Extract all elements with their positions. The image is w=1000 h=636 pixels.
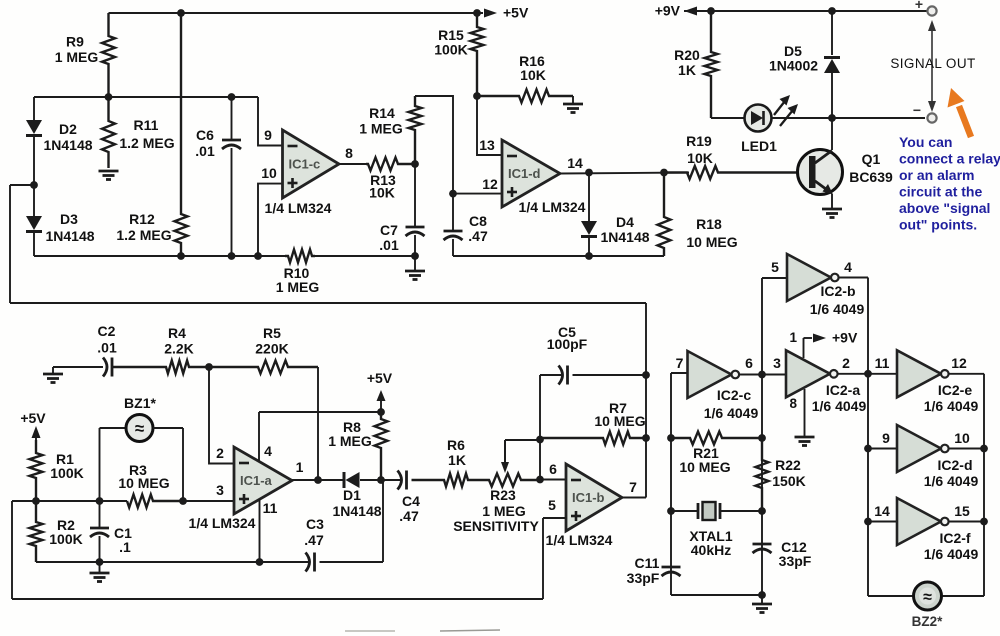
- label IC2-d: [924, 457, 979, 489]
- resistor R15: [471, 13, 484, 96]
- junction XTAL right: [758, 507, 766, 515]
- wire emitter: [831, 194, 833, 208]
- svg-text:+9V: +9V: [832, 330, 858, 346]
- svg-text:IC2-e: IC2-e: [938, 382, 972, 398]
- wire output pin7: [622, 303, 646, 498]
- inverter IC2-d: [897, 425, 949, 472]
- label pin 3 (IC2-a): [773, 355, 781, 371]
- wire IC1-d output: [560, 173, 689, 174]
- wire BZ2 right: [941, 595, 984, 597]
- wire pin6 IC1-b: [540, 479, 566, 481]
- label R14: [359, 105, 403, 137]
- junction top rail / R12: [177, 9, 185, 17]
- buzzer BZ2: [914, 582, 942, 610]
- resistor R20: [705, 11, 718, 118]
- svg-text:10 MEG: 10 MEG: [118, 475, 169, 491]
- label D3: [45, 211, 94, 244]
- wire R5 to output: [317, 367, 319, 480]
- label R9 value: [55, 34, 99, 66]
- wire collector: [831, 118, 833, 150]
- resistor R16: [477, 90, 573, 103]
- resistor R22: [756, 438, 769, 511]
- diode D1: [344, 472, 360, 488]
- LED1 light arrows: [774, 95, 798, 126]
- svg-text:R4: R4: [168, 325, 186, 341]
- label IC2-f: [924, 530, 979, 562]
- svg-text:.1: .1: [119, 539, 131, 555]
- svg-text:+5V: +5V: [367, 370, 393, 386]
- power +5V (R8): [367, 370, 393, 412]
- svg-text:11: 11: [263, 500, 278, 516]
- capacitor C5: [559, 366, 568, 385]
- junction R1/R2 bias: [32, 497, 40, 505]
- wire D1 to C4: [360, 479, 401, 481]
- svg-text:D1: D1: [343, 487, 361, 503]
- svg-text:1/6 4049: 1/6 4049: [924, 473, 979, 489]
- svg-text:R12: R12: [129, 211, 155, 227]
- svg-text:R11: R11: [134, 117, 159, 133]
- svg-text:1: 1: [789, 330, 797, 345]
- wire gnd to C2: [53, 366, 103, 368]
- svg-text:connect a relay: connect a relay: [899, 151, 1000, 167]
- label 1/4 LM324 (IC1-d): [519, 199, 586, 215]
- label C5: [547, 324, 588, 352]
- terminal signal out -: [913, 102, 937, 123]
- wire IC2-a output: [838, 373, 897, 375]
- wire R14 top to pin12 node: [415, 96, 453, 194]
- svg-text:R22: R22: [775, 457, 801, 473]
- svg-text:C6: C6: [196, 127, 214, 143]
- svg-text:10 MEG: 10 MEG: [679, 459, 730, 475]
- label Q1: [849, 151, 893, 185]
- svg-text:2.2K: 2.2K: [164, 341, 194, 357]
- junction R13/R14/C7: [411, 160, 419, 168]
- svg-text:IC2-f: IC2-f: [939, 530, 970, 546]
- diode D3: [26, 185, 42, 256]
- svg-text:1.2 MEG: 1.2 MEG: [116, 227, 171, 243]
- svg-text:1 MEG: 1 MEG: [359, 121, 403, 137]
- svg-text:C11: C11: [635, 555, 660, 571]
- svg-text:IC1-a: IC1-a: [240, 473, 273, 488]
- svg-text:8: 8: [789, 396, 797, 411]
- svg-text:100K: 100K: [49, 531, 82, 547]
- label R16: [519, 53, 546, 83]
- svg-text:C3: C3: [306, 516, 324, 532]
- svg-text:5: 5: [548, 497, 556, 513]
- wire R22/C12 branch: [761, 278, 763, 595]
- svg-text:1 MEG: 1 MEG: [482, 503, 526, 519]
- svg-text:1: 1: [296, 459, 304, 475]
- label D5: [769, 43, 818, 74]
- label pin 3: [216, 482, 224, 498]
- transistor Q1: [798, 150, 843, 195]
- label R4: [164, 325, 194, 357]
- svg-text:4: 4: [844, 259, 852, 275]
- label pin 11 (IC2-e): [875, 355, 890, 371]
- wire pin12 IC1-d: [453, 193, 502, 195]
- wire IC2-b input: [762, 277, 787, 279]
- label R23: [482, 487, 526, 519]
- label C6: [195, 127, 215, 159]
- inverter IC2-a: [786, 350, 838, 397]
- wire IC2-b output: [839, 278, 868, 374]
- svg-text:14: 14: [874, 503, 890, 519]
- resistor R19: [664, 166, 798, 179]
- svg-text:SIGNAL OUT: SIGNAL OUT: [890, 56, 975, 71]
- svg-text:D2: D2: [59, 121, 77, 137]
- svg-text:1/4 LM324: 1/4 LM324: [189, 515, 256, 531]
- svg-text:2: 2: [216, 445, 224, 461]
- label SIGNAL OUT: [890, 56, 975, 71]
- svg-text:IC2-d: IC2-d: [938, 457, 973, 473]
- svg-text:7: 7: [629, 479, 637, 495]
- svg-text:IC2-b: IC2-b: [821, 283, 856, 299]
- label R6: [447, 437, 466, 468]
- label C12: [779, 539, 812, 569]
- junction R21 right: [758, 434, 766, 442]
- label pin 5 (IC2-b): [771, 259, 779, 275]
- label IC2-c: [704, 387, 759, 421]
- power +9V (top): [655, 3, 697, 19]
- label IC2-e: [924, 382, 979, 414]
- diode D4: [581, 173, 597, 257]
- junction D5/collector/signal-: [828, 114, 836, 122]
- junction IC2-f input: [864, 518, 872, 526]
- wire pin2 IC1-a: [209, 367, 234, 464]
- svg-text:1/4 LM324: 1/4 LM324: [265, 200, 332, 216]
- svg-text:C2: C2: [98, 323, 116, 339]
- svg-text:8: 8: [345, 145, 353, 161]
- label pin 10: [261, 165, 277, 181]
- label 1/4 LM324 (IC1-a): [189, 515, 256, 531]
- svg-text:15: 15: [954, 503, 970, 519]
- label IC2-b: [810, 283, 865, 317]
- ground C2: [43, 367, 63, 383]
- svg-text:−: −: [913, 102, 921, 118]
- svg-text:1/4 LM324: 1/4 LM324: [519, 199, 586, 215]
- svg-text:IC1-c: IC1-c: [289, 157, 321, 172]
- capacitor C7: [406, 164, 425, 256]
- svg-text:out" points.: out" points.: [899, 217, 977, 233]
- label pin 14: [567, 155, 583, 171]
- resistor R7: [540, 432, 646, 445]
- junction buffer input node: [864, 370, 872, 378]
- svg-text:.01: .01: [195, 143, 215, 159]
- svg-text:R20: R20: [674, 47, 700, 63]
- svg-text:3: 3: [773, 355, 781, 371]
- wire pin13 IC1-d: [477, 96, 502, 155]
- svg-text:D3: D3: [60, 211, 78, 227]
- svg-text:1K: 1K: [678, 62, 696, 78]
- label pin 14 (IC2-f): [874, 503, 890, 519]
- label D1: [332, 487, 381, 519]
- junction top rail / R15: [473, 9, 481, 17]
- label pin 7 (IC1-b): [629, 479, 637, 495]
- wire +5V top rail: [109, 12, 484, 14]
- svg-text:4: 4: [264, 443, 272, 459]
- svg-text:100K: 100K: [434, 42, 467, 58]
- svg-text:+9V: +9V: [655, 3, 681, 19]
- junction pin6 node: [536, 476, 544, 484]
- capacitor C2: [103, 358, 112, 377]
- svg-text:circuit at the: circuit at the: [899, 184, 982, 200]
- svg-text:1N4148: 1N4148: [600, 229, 649, 245]
- svg-text:220K: 220K: [255, 341, 288, 357]
- svg-text:+5V: +5V: [503, 5, 529, 21]
- label pin 9 (IC2-d): [882, 430, 890, 446]
- wire C5 to node: [573, 374, 647, 376]
- svg-text:1N4148: 1N4148: [43, 137, 92, 153]
- junction C1 bottom: [96, 558, 104, 566]
- capacitor C3: [306, 553, 315, 572]
- buzzer BZ1: [100, 415, 184, 502]
- junction D4 bottom: [585, 252, 593, 260]
- wire buffer input bus: [867, 374, 869, 596]
- svg-text:12: 12: [482, 176, 498, 192]
- label R5: [255, 325, 288, 357]
- LED LED1: [745, 105, 772, 132]
- label 1/4 LM324 (IC1-c): [265, 200, 332, 216]
- label 1/4 LM324 (IC1-b): [546, 532, 613, 548]
- junction output/R5/C3: [314, 476, 322, 484]
- junction wiper node: [536, 436, 544, 444]
- wire R20 to LED1: [711, 117, 745, 119]
- svg-text:1/6 4049: 1/6 4049: [810, 301, 865, 317]
- svg-text:1N4148: 1N4148: [45, 228, 94, 244]
- wire +9V rail: [684, 10, 928, 12]
- wire analog ground rail: [36, 546, 310, 562]
- junction C6 bottom: [228, 252, 236, 260]
- svg-text:40kHz: 40kHz: [691, 542, 731, 558]
- junction D1/R8/C3: [377, 476, 385, 484]
- svg-text:3: 3: [216, 482, 224, 498]
- power +5V (top): [484, 5, 529, 21]
- svg-text:You can: You can: [899, 134, 952, 150]
- svg-text:1.2 MEG: 1.2 MEG: [119, 135, 174, 151]
- svg-text:.47: .47: [399, 508, 419, 524]
- label pin 13: [479, 137, 495, 153]
- R23 wiper arrow: [501, 440, 540, 473]
- svg-text:1 MEG: 1 MEG: [328, 433, 372, 449]
- op-amp IC1-a: [234, 447, 292, 514]
- wire pin9 IC1-c: [258, 97, 283, 146]
- wire to left feedback: [10, 185, 34, 303]
- svg-text:R5: R5: [263, 325, 281, 341]
- label pin 4 (IC2-b): [844, 259, 852, 275]
- svg-text:1K: 1K: [448, 452, 466, 468]
- op-amp IC1-d: [502, 140, 560, 207]
- label R1: [50, 451, 83, 481]
- junction R4/R5/pin2: [205, 363, 213, 371]
- wire IC2-d output: [949, 448, 984, 450]
- ground IC2-a pin8: [795, 389, 815, 446]
- op-amp IC1-b: [566, 464, 622, 531]
- capacitor C11: [662, 567, 681, 576]
- junction IC2-d output: [980, 445, 988, 453]
- svg-text:R19: R19: [686, 133, 712, 149]
- label pin 1 (IC2-a): [789, 330, 797, 345]
- signal out arrows: [928, 20, 936, 112]
- wire IC2-f input: [868, 521, 897, 523]
- svg-text:SENSITIVITY: SENSITIVITY: [453, 518, 539, 534]
- wire pin3 IC1-a: [183, 500, 234, 502]
- junction C5 right: [642, 371, 650, 379]
- resistor R12: [175, 13, 188, 256]
- svg-text:12: 12: [951, 355, 967, 371]
- label pin 8: [345, 145, 353, 161]
- label D4: [600, 214, 649, 245]
- svg-text:13: 13: [479, 137, 495, 153]
- junction R21 left: [667, 434, 675, 442]
- svg-text:6: 6: [549, 461, 557, 477]
- power +5V (R1): [20, 410, 46, 453]
- junction osc node B: [758, 371, 766, 379]
- svg-text:≈: ≈: [135, 419, 144, 438]
- svg-text:IC2-c: IC2-c: [717, 387, 751, 403]
- junction IC2-f output: [980, 518, 988, 526]
- svg-text:IC1-d: IC1-d: [508, 166, 541, 181]
- label pin 2 (IC2-a): [842, 355, 850, 371]
- svg-text:1/6 4049: 1/6 4049: [704, 405, 759, 421]
- svg-text:R14: R14: [369, 105, 395, 121]
- svg-text:150K: 150K: [772, 473, 805, 489]
- junction R18 top: [660, 169, 668, 177]
- label R2: [49, 517, 82, 547]
- svg-text:.01: .01: [97, 340, 117, 356]
- wire detector rail: [453, 255, 664, 257]
- op-amp IC1-c: [283, 130, 340, 198]
- junction R12 bottom: [177, 252, 185, 260]
- wire IC2-c input node: [671, 373, 688, 595]
- label R22: [772, 457, 805, 489]
- label R21: [679, 445, 730, 475]
- resistor R6: [412, 474, 487, 487]
- resistor R9: [102, 13, 115, 97]
- svg-text:R6: R6: [447, 437, 465, 453]
- svg-text:14: 14: [567, 155, 583, 171]
- capacitor C1: [90, 501, 109, 562]
- label pin 7 (IC2-c): [676, 355, 684, 371]
- label pin 2: [216, 445, 224, 461]
- svg-text:10 MEG: 10 MEG: [686, 234, 737, 250]
- capacitor C8: [444, 194, 463, 256]
- svg-text:+5V: +5V: [20, 410, 46, 426]
- resistor R3: [127, 495, 183, 508]
- crystal XTAL1: [671, 502, 762, 520]
- label pin 1: [296, 459, 304, 475]
- label BZ2: [912, 614, 944, 629]
- junction C7 ground node: [411, 252, 419, 260]
- label C11: [627, 555, 660, 586]
- capacitor C6: [222, 97, 241, 256]
- label C8: [468, 213, 488, 244]
- svg-text:6: 6: [745, 355, 753, 371]
- label pin 12: [482, 176, 498, 192]
- svg-text:9: 9: [264, 127, 272, 143]
- label R13: [369, 172, 396, 201]
- label C4: [399, 493, 420, 524]
- ground C7: [405, 256, 425, 280]
- wire output pin 8: [339, 163, 366, 165]
- junction XTAL left: [667, 507, 675, 515]
- svg-text:R9: R9: [66, 34, 84, 50]
- ground C1: [90, 562, 110, 582]
- label D2: [43, 121, 92, 153]
- diode D5: [824, 11, 840, 118]
- capacitor C4: [398, 471, 407, 490]
- label C3: [304, 516, 324, 548]
- svg-text:1N4148: 1N4148: [332, 503, 381, 519]
- resistor R10: [285, 250, 315, 263]
- label pin 11: [263, 500, 278, 516]
- wire bias to left: [12, 501, 36, 599]
- svg-text:IC1-b: IC1-b: [572, 490, 605, 505]
- label R18: [686, 216, 737, 250]
- svg-text:1/6 4049: 1/6 4049: [924, 546, 979, 562]
- svg-text:D4: D4: [616, 214, 634, 230]
- wire IC2-d input: [868, 448, 897, 450]
- label R8: [328, 419, 372, 449]
- annotation blue text: [899, 134, 1000, 233]
- wire C4 to R6: [412, 479, 438, 481]
- label C2: [97, 323, 117, 356]
- junction R7 right: [642, 434, 650, 442]
- svg-text:7: 7: [676, 355, 684, 371]
- svg-text:R18: R18: [696, 216, 722, 232]
- label C1: [114, 525, 132, 555]
- capacitor C12: [753, 544, 772, 553]
- svg-text:10K: 10K: [687, 150, 713, 166]
- resistor R14: [409, 96, 422, 164]
- junction D2/D3 node: [30, 181, 38, 189]
- resistor R11: [102, 97, 115, 168]
- diode D2: [26, 97, 42, 185]
- junction pin10 wire: [254, 252, 262, 260]
- svg-text:100pF: 100pF: [547, 336, 588, 352]
- svg-text:or an alarm: or an alarm: [899, 167, 974, 183]
- wire IC2-e output: [949, 374, 984, 596]
- label R10: [276, 265, 320, 295]
- wire feedback line (long): [10, 302, 646, 304]
- svg-text:9: 9: [882, 430, 890, 446]
- svg-text:BC639: BC639: [849, 169, 893, 185]
- annotation orange arrow: [948, 88, 972, 137]
- label pin 8 (IC2-a): [789, 396, 797, 411]
- label LED1: [741, 138, 777, 154]
- junction R3/BZ1-right: [179, 497, 187, 505]
- wire IC2-c out to IC2-a in: [739, 374, 786, 376]
- svg-text:.01: .01: [379, 237, 399, 253]
- svg-text:IC2-a: IC2-a: [826, 382, 860, 398]
- wire C3 to output node: [320, 480, 384, 562]
- svg-text:10: 10: [954, 430, 970, 446]
- label IC2-a: [812, 382, 867, 414]
- potentiometer R23: [486, 474, 540, 487]
- label SENSITIVITY: [453, 518, 539, 534]
- svg-text:Q1: Q1: [862, 151, 881, 167]
- label R15: [434, 27, 467, 58]
- svg-text:1 MEG: 1 MEG: [276, 279, 320, 295]
- label R11: [119, 117, 174, 151]
- svg-text:2: 2: [842, 355, 850, 371]
- resistor R5: [209, 361, 318, 374]
- svg-text:R23: R23: [490, 487, 516, 503]
- wire pin4 +5V: [259, 412, 381, 461]
- resistor R2: [30, 501, 43, 562]
- svg-text:.47: .47: [304, 532, 324, 548]
- svg-text:BZ1*: BZ1*: [124, 395, 156, 411]
- resistor R21: [671, 432, 762, 445]
